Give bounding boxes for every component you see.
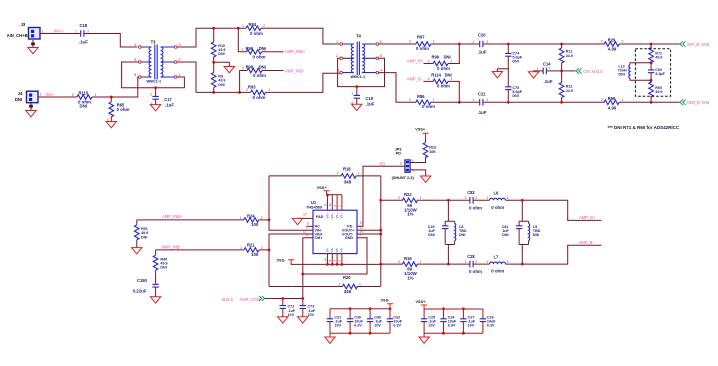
shunt capacitor C81 xyxy=(502,200,529,244)
wire R86 to C21 xyxy=(431,101,480,103)
junction R10 top xyxy=(212,27,215,30)
svg-text:2: 2 xyxy=(87,29,89,33)
svg-text:INA+: INA+ xyxy=(54,28,64,33)
svg-text:1: 1 xyxy=(419,260,421,264)
svg-text:GND: GND xyxy=(345,236,354,240)
svg-text:2: 2 xyxy=(339,282,341,286)
svg-text:49.9: 49.9 xyxy=(655,56,662,60)
ground between R10 and R9 xyxy=(214,62,235,73)
svg-text:AMP_B-: AMP_B- xyxy=(407,76,423,81)
svg-text:0 ohm: 0 ohm xyxy=(416,46,429,51)
svg-text:9: 9 xyxy=(359,233,361,237)
wire feedback column right xyxy=(380,176,382,287)
junction shunt1 top xyxy=(447,199,450,202)
resistor R115 xyxy=(72,90,97,108)
svg-text:AMP_INB+: AMP_INB+ xyxy=(285,49,306,54)
svg-text:1: 1 xyxy=(465,196,467,200)
connector chevron CM xyxy=(576,68,582,73)
wire VS+ pins bar xyxy=(327,194,343,196)
svg-text:DNI: DNI xyxy=(512,94,518,98)
svg-text:R86: R86 xyxy=(417,94,425,99)
svg-text:0.22uF: 0.22uF xyxy=(133,289,147,294)
wire J3 to C18 xyxy=(40,33,81,35)
wire stub to R114 xyxy=(424,80,434,82)
wire R97 to C20 xyxy=(431,43,480,45)
svg-text:0 ohm: 0 ohm xyxy=(491,205,504,210)
wire R59 to chevron INM_B xyxy=(619,101,680,103)
svg-text:0 ohm: 0 ohm xyxy=(253,54,266,59)
svg-text:DNI: DNI xyxy=(80,104,88,109)
wire feedback column upper xyxy=(269,176,313,230)
svg-text:2: 2 xyxy=(264,48,266,52)
junction top rail xyxy=(237,27,240,30)
resistor R24 xyxy=(240,213,263,227)
ground of R51 xyxy=(132,248,142,254)
svg-text:2: 2 xyxy=(398,196,400,200)
junction R22 tap xyxy=(379,199,382,202)
node INM_B XH5 xyxy=(687,100,710,105)
wire GND pin loop xyxy=(303,238,367,274)
junction R99 riser top xyxy=(458,43,461,46)
svg-text:DNI: DNI xyxy=(160,266,166,270)
resistor R11 xyxy=(559,44,573,71)
resistor R99 xyxy=(428,55,453,71)
wire C21 to R59 xyxy=(483,101,605,103)
wire R24 to feedback column xyxy=(259,219,269,221)
svg-text:INM_B: INM_B xyxy=(687,100,700,105)
svg-text:1: 1 xyxy=(269,88,271,92)
wire J4 to R115 xyxy=(38,96,77,98)
svg-text:1: 1 xyxy=(433,97,435,101)
wire stub to R99 xyxy=(424,63,434,65)
svg-text:AMP_B-: AMP_B- xyxy=(579,240,595,245)
op-amp U1 THS4509 xyxy=(303,200,364,262)
resistor R65 xyxy=(107,97,130,122)
junction bottom of R9 xyxy=(212,91,215,94)
wire R22 row xyxy=(381,199,403,201)
junction R114 riser bottom xyxy=(458,101,461,104)
svg-text:VSS+: VSS+ xyxy=(317,186,328,190)
junction C72 xyxy=(281,297,284,300)
ground of J4 xyxy=(26,103,36,117)
svg-text:R84: R84 xyxy=(249,22,257,27)
svg-text:4.99: 4.99 xyxy=(608,106,617,111)
junction T4 loop / C19 xyxy=(355,85,358,88)
svg-text:10V: 10V xyxy=(334,324,341,328)
power flag VSS- group1 xyxy=(381,299,394,308)
power flag VSS+ at chip top xyxy=(317,186,330,195)
svg-text:2: 2 xyxy=(507,196,509,200)
svg-text:C17: C17 xyxy=(164,97,172,102)
connector chevron AMP_VCM xyxy=(259,296,265,301)
svg-text:2: 2 xyxy=(475,196,477,200)
wire T3 pin2 to bottom rail xyxy=(177,62,196,92)
junction C75 column bottom xyxy=(507,101,510,104)
svg-text:VS-: VS- xyxy=(325,248,329,253)
svg-text:1: 1 xyxy=(265,66,267,70)
svg-text:10V: 10V xyxy=(468,324,475,328)
resistor R84 xyxy=(242,22,265,36)
svg-text:2: 2 xyxy=(351,101,353,105)
svg-text:VS-: VS- xyxy=(330,248,334,253)
svg-text:*** DNI R71 & R60 for ADS42RlC: *** DNI R71 & R60 for ADS42RlCC xyxy=(608,125,680,130)
capacitor C24 xyxy=(440,309,457,333)
svg-text:24.9: 24.9 xyxy=(566,89,573,93)
svg-text:2: 2 xyxy=(261,246,263,250)
svg-text:C19: C19 xyxy=(366,96,374,101)
svg-text:17: 17 xyxy=(303,212,307,216)
svg-text:DNI: DNI xyxy=(459,233,465,237)
svg-text:1: 1 xyxy=(75,29,77,33)
svg-text:6.3V: 6.3V xyxy=(354,324,362,328)
svg-text:2: 2 xyxy=(428,77,430,81)
shunt capacitor C29 xyxy=(428,200,455,244)
power flag VSS+ at R23 xyxy=(415,128,428,138)
junction R24/column xyxy=(268,219,271,222)
svg-text:100: 100 xyxy=(251,252,259,257)
wire AMP_INB+ to R24 xyxy=(137,219,244,221)
capacitor C28 xyxy=(465,254,483,274)
svg-text:XH5: XH5 xyxy=(701,42,710,47)
capacitor C75 xyxy=(505,69,523,103)
pin stub PAD and ground xyxy=(292,218,313,224)
svg-text:2: 2 xyxy=(261,216,263,220)
junction VOUT+ tap xyxy=(379,229,382,232)
capacitor C21 xyxy=(472,91,488,115)
wire VSS+ top bus xyxy=(424,308,483,310)
svg-text:VS-: VS- xyxy=(340,248,344,253)
junction R71 column top xyxy=(650,43,653,46)
resistor R40 xyxy=(153,250,167,284)
svg-text:6: 6 xyxy=(134,73,136,77)
ground of group1 xyxy=(325,333,335,343)
wire T3 pin5-pin1 loop xyxy=(122,62,185,88)
svg-text:R22: R22 xyxy=(404,192,412,197)
svg-text:0 ohm: 0 ohm xyxy=(469,205,482,210)
svg-text:VS+: VS+ xyxy=(325,213,329,219)
svg-text:2: 2 xyxy=(179,58,181,62)
svg-text:AMP_INB+: AMP_INB+ xyxy=(162,214,183,219)
power flag VSS+ group2 xyxy=(416,300,428,309)
svg-text:2: 2 xyxy=(72,93,74,97)
svg-text:1%: 1% xyxy=(407,212,413,217)
wire R84 to T4 pin1 xyxy=(261,28,339,44)
svg-text:R16: R16 xyxy=(404,256,412,261)
resistor R21 xyxy=(240,242,263,257)
junctions group2 buses xyxy=(442,307,465,334)
svg-text:2: 2 xyxy=(337,172,339,176)
svg-text:2: 2 xyxy=(150,92,152,96)
resistor R59 xyxy=(601,96,624,111)
svg-text:J3: J3 xyxy=(21,22,26,27)
svg-text:0 ohm: 0 ohm xyxy=(469,269,482,274)
svg-text:2: 2 xyxy=(246,88,248,92)
svg-text:2: 2 xyxy=(548,66,550,70)
svg-text:R59: R59 xyxy=(608,96,616,101)
node AMP_VCM xyxy=(221,297,260,302)
connector J3 xyxy=(7,22,44,39)
svg-text:R98: R98 xyxy=(246,65,254,70)
capacitor C20 xyxy=(472,32,488,54)
node CM XH2.5 xyxy=(583,69,603,74)
dashed option box xyxy=(635,49,670,96)
svg-text:1: 1 xyxy=(336,40,338,44)
svg-text:AIN_CH+B: AIN_CH+B xyxy=(7,33,28,38)
svg-text:.1uF: .1uF xyxy=(79,39,88,44)
svg-text:1: 1 xyxy=(242,24,244,28)
svg-text:1: 1 xyxy=(240,216,242,220)
svg-text:R115: R115 xyxy=(79,90,89,95)
junction GND loop / CM column xyxy=(301,273,304,276)
svg-text:R18: R18 xyxy=(343,167,351,172)
resistor R29 xyxy=(601,37,624,51)
svg-text:1: 1 xyxy=(419,196,421,200)
svg-text:XH5: XH5 xyxy=(701,100,710,105)
svg-text:DNI: DNI xyxy=(512,60,518,64)
wire L7 to AMP_B- stub xyxy=(506,245,602,264)
svg-text:2: 2 xyxy=(601,98,603,102)
wire R96 to net stub xyxy=(262,51,284,53)
svg-text:CM1: CM1 xyxy=(315,236,323,240)
resistor R10 xyxy=(211,28,225,62)
wire L6 to AMP_B+ stub xyxy=(506,200,602,220)
shunt inductor L5 xyxy=(519,221,541,264)
svg-text:DNI: DNI xyxy=(533,233,539,237)
transformer T4 xyxy=(336,34,382,80)
svg-text:1: 1 xyxy=(465,260,467,264)
resistor R71 xyxy=(649,44,663,63)
svg-text:R24: R24 xyxy=(247,213,255,218)
wire T3 pin3 to top rail xyxy=(177,28,196,47)
svg-text:2: 2 xyxy=(409,98,411,102)
inductor L6 xyxy=(486,191,508,210)
svg-text:49.9: 49.9 xyxy=(655,90,662,94)
capacitor C27 xyxy=(460,309,476,333)
svg-text:6.3V: 6.3V xyxy=(448,324,456,328)
svg-text:C20: C20 xyxy=(478,32,486,37)
svg-text:348: 348 xyxy=(344,180,352,185)
resistor R60 xyxy=(649,80,663,102)
svg-text:10V: 10V xyxy=(428,324,435,328)
wire R93 to T4 pin3 xyxy=(266,73,340,92)
svg-text:1%: 1% xyxy=(407,276,413,281)
junction T3 loop / C17 xyxy=(154,86,157,89)
wire R21 to feedback column xyxy=(259,249,269,251)
svg-text:AMP_VCM: AMP_VCM xyxy=(240,297,261,302)
wire T4 pin2-pin5 loop xyxy=(338,58,385,86)
inductor L7 xyxy=(486,255,508,274)
svg-text:1: 1 xyxy=(622,98,624,102)
svg-text:CM: CM xyxy=(583,69,590,74)
svg-text:DNI: DNI xyxy=(218,83,224,87)
capacitor C25 xyxy=(421,309,437,333)
svg-text:0 ohm: 0 ohm xyxy=(437,84,450,89)
svg-text:R23: R23 xyxy=(429,145,436,149)
svg-text:VS-: VS- xyxy=(335,248,339,253)
wire R98 to net stub xyxy=(262,70,284,72)
junctions group1 buses xyxy=(349,307,392,334)
svg-text:L6: L6 xyxy=(494,191,500,196)
svg-text:1: 1 xyxy=(451,77,453,81)
pin stub NC xyxy=(307,225,314,227)
svg-text:VSS-: VSS- xyxy=(381,299,391,303)
svg-text:1: 1 xyxy=(240,246,242,250)
svg-text:DNI: DNI xyxy=(15,97,22,102)
svg-text:.1uF: .1uF xyxy=(165,103,174,108)
svg-text:R93: R93 xyxy=(248,84,256,89)
svg-text:J4: J4 xyxy=(18,91,23,96)
svg-text:VS+: VS+ xyxy=(340,213,344,219)
wire VOUT+ row xyxy=(357,229,381,231)
svg-text:1: 1 xyxy=(242,48,244,52)
junction R65 xyxy=(110,96,113,99)
svg-text:THS4509: THS4509 xyxy=(306,205,322,209)
svg-text:2: 2 xyxy=(400,161,402,165)
svg-text:4: 4 xyxy=(134,43,136,47)
wire R115 to T3 pin6 riser xyxy=(92,77,139,97)
resistor R16 xyxy=(398,256,421,281)
resistor R98 xyxy=(242,65,266,79)
svg-text:6.3V: 6.3V xyxy=(487,324,495,328)
wire VS- bus xyxy=(291,263,381,264)
svg-text:AMP_B+: AMP_B+ xyxy=(407,58,424,63)
svg-text:15: 15 xyxy=(323,203,327,207)
capacitor C72 xyxy=(280,299,296,318)
wire JP3 pin1 to R23 xyxy=(410,157,425,163)
capacitor C17 xyxy=(150,88,174,111)
svg-text:2: 2 xyxy=(398,260,400,264)
ground of C73 xyxy=(298,317,308,323)
capacitor C69 xyxy=(648,63,666,80)
svg-text:R99: R99 xyxy=(432,55,440,60)
svg-text:1: 1 xyxy=(359,282,361,286)
resistor R22 xyxy=(398,192,421,217)
wire bottom rail to R98 row xyxy=(240,71,247,93)
svg-text:DNI: DNI xyxy=(428,233,434,237)
svg-text:R114: R114 xyxy=(431,73,441,78)
junction shunt2 top xyxy=(521,199,524,202)
svg-text:R11: R11 xyxy=(566,50,573,54)
wire JP3 pin3 to ground xyxy=(410,170,431,182)
junction C74 column top xyxy=(507,43,510,46)
junction shunt1 bottom xyxy=(447,263,450,266)
svg-text:0 ohm: 0 ohm xyxy=(253,95,266,100)
capacitor C30 xyxy=(347,309,364,333)
svg-text:1: 1 xyxy=(622,40,624,44)
svg-text:14: 14 xyxy=(323,258,327,262)
svg-text:C18: C18 xyxy=(80,23,88,28)
wire AMP_VCM to CM column xyxy=(265,298,303,300)
svg-text:(SHUNT 2-3): (SHUNT 2-3) xyxy=(392,176,415,180)
svg-text:2: 2 xyxy=(428,59,430,63)
node INP_B XH5 xyxy=(687,42,710,47)
wire C82 to L6 xyxy=(473,199,489,201)
shunt inductor L8 xyxy=(445,221,467,264)
svg-text:1: 1 xyxy=(472,98,474,102)
svg-text:.1uF: .1uF xyxy=(478,49,487,54)
wire C20 to R29 xyxy=(483,43,605,45)
junction VS- pins xyxy=(326,263,343,266)
svg-text:2: 2 xyxy=(507,260,509,264)
ground of C72 xyxy=(278,317,288,323)
resistor R20 xyxy=(269,275,381,294)
wire group2 bottom bus xyxy=(424,332,483,334)
capacitor C31 xyxy=(327,309,343,333)
capacitor C14 xyxy=(537,61,562,84)
connector J4 xyxy=(15,91,42,103)
svg-text:6: 6 xyxy=(380,40,382,44)
resistor R9 xyxy=(211,62,225,92)
wire VIN+ row and lower column xyxy=(269,234,313,287)
svg-text:C150: C150 xyxy=(137,278,148,283)
resistor R12 xyxy=(559,71,573,102)
wire R22 to C82 xyxy=(417,199,470,201)
svg-text:2: 2 xyxy=(336,54,338,58)
wire R114 to bottom rail xyxy=(448,81,459,102)
power flag VSS- at chip bottom xyxy=(277,258,295,263)
wire T4 pin4 to bottom rail xyxy=(379,73,416,103)
capacitor C26 xyxy=(480,309,497,333)
svg-text:PD: PD xyxy=(396,152,402,156)
junction VS+ bar xyxy=(326,194,329,197)
ground of R65 xyxy=(106,122,116,128)
svg-text:6.3V: 6.3V xyxy=(393,324,401,328)
svg-text:2: 2 xyxy=(409,40,411,44)
wire VS- pin stubs xyxy=(328,254,342,265)
ground of C14 xyxy=(528,71,538,78)
resistor R51 xyxy=(135,220,149,248)
svg-text:4.99: 4.99 xyxy=(608,47,617,52)
svg-text:2: 2 xyxy=(475,260,477,264)
resistor R96 xyxy=(242,46,266,59)
svg-text:DNI: DNI xyxy=(218,52,224,56)
svg-text:10K: 10K xyxy=(429,150,436,154)
svg-text:1: 1 xyxy=(358,172,360,176)
svg-text:2: 2 xyxy=(263,24,265,28)
junction R60 column bottom xyxy=(650,101,653,104)
svg-text:2: 2 xyxy=(486,98,488,102)
resistor R23 xyxy=(423,137,436,157)
svg-text:T4: T4 xyxy=(356,34,362,39)
svg-text:0 ohm: 0 ohm xyxy=(422,104,435,109)
wire C18 to T3 pin 4 xyxy=(84,34,137,48)
wire R29 to chevron INP_B xyxy=(619,43,680,45)
ground of C150 xyxy=(150,297,160,303)
capacitor C80 xyxy=(367,309,383,333)
svg-text:1: 1 xyxy=(537,66,539,70)
svg-text:4: 4 xyxy=(380,68,382,72)
wire CM1 column xyxy=(303,238,313,299)
svg-text:2: 2 xyxy=(486,40,488,44)
svg-text:0 ohm: 0 ohm xyxy=(253,73,266,78)
svg-text:0 ohm: 0 ohm xyxy=(250,31,263,36)
svg-text:R20: R20 xyxy=(343,275,351,280)
wire VSS- top bus xyxy=(330,308,390,309)
junction CM node xyxy=(560,70,563,73)
junction R11 column top xyxy=(560,43,563,46)
svg-text:C21: C21 xyxy=(478,91,486,96)
svg-text:5: 5 xyxy=(134,58,136,62)
junction R21/column xyxy=(268,249,271,252)
svg-text:T3: T3 xyxy=(151,40,157,45)
svg-text:INA-: INA- xyxy=(46,92,55,97)
svg-text:VS+: VS+ xyxy=(335,213,339,219)
junction R12 column bottom xyxy=(560,101,563,104)
svg-text:.1uF: .1uF xyxy=(544,79,553,84)
svg-text:2: 2 xyxy=(242,66,244,70)
svg-text:C28: C28 xyxy=(467,254,475,259)
jumper JP3 xyxy=(392,147,415,179)
